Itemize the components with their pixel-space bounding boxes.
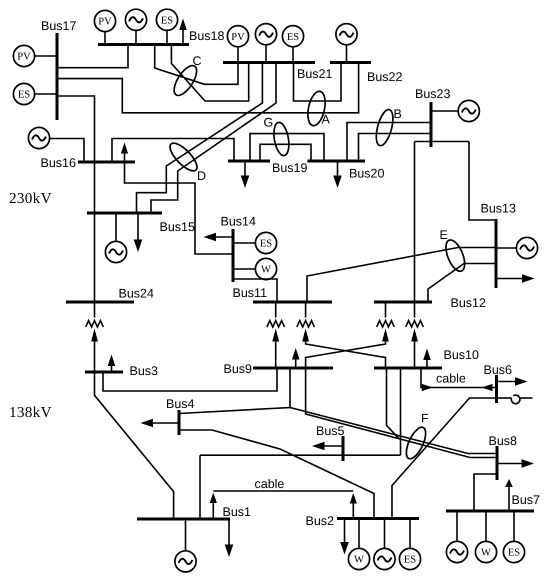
svg-text:Bus23: Bus23 (415, 87, 450, 101)
generator stub Bus23 (431, 110, 458, 112)
bus bar Bus1 (137, 518, 230, 521)
generator stub Bus1 (185, 519, 187, 551)
ES unit Bus14 (255, 232, 276, 253)
generator stub Bus7 (456, 511, 458, 542)
wire line 20-23 circuit 1 via B (347, 123, 431, 162)
wire line 5-10 (400, 368, 402, 455)
PV unit stub Bus17 upper (35, 55, 57, 57)
arrowhead up Bus9 (292, 348, 300, 360)
W unit stub Bus7 (485, 511, 487, 542)
wire line 16-19 (112, 139, 234, 163)
svg-text:PV: PV (231, 32, 245, 43)
wire cable 6-10 (421, 368, 497, 388)
svg-text:230kV: 230kV (9, 190, 52, 207)
transformer 11-10 stub (305, 302, 307, 318)
arrow right Bus6 shaft (497, 381, 516, 383)
arrowhead cable 1-2 at Bus2 (350, 493, 357, 504)
PV unit Bus18 (94, 10, 115, 31)
svg-text:ES: ES (508, 548, 520, 559)
bus bar Bus3 (85, 371, 123, 374)
arrow up Bus7 shaft (508, 487, 510, 511)
arrow left Bus5 shaft (325, 445, 344, 447)
bus bar Bus6 (495, 375, 498, 403)
svg-text:Bus16: Bus16 (41, 156, 76, 170)
generator Bus2 (374, 548, 395, 569)
svg-text:G: G (264, 116, 274, 130)
bus bar Bus24 (66, 301, 134, 304)
wire line 21-22 via A (294, 63, 342, 102)
generator Bus23 (458, 100, 479, 121)
arrow down Bus2 shaft (344, 519, 346, 543)
bus bar Bus16 (78, 161, 135, 164)
bus bar Bus15 (87, 212, 162, 215)
transformer 12-9 stub (385, 302, 387, 318)
arrow left Bus14 shaft (216, 236, 233, 238)
generator Bus18 (125, 9, 146, 30)
PV unit stub Bus18 (104, 32, 106, 45)
bus bar Bus2 (337, 517, 419, 520)
arrowhead down Bus1 (225, 545, 234, 558)
wire line 15-21 circuit 1 via D (137, 63, 263, 214)
wire line 1-3 (95, 372, 174, 519)
svg-text:Bus20: Bus20 (349, 167, 384, 181)
svg-text:PV: PV (17, 52, 31, 63)
arrowhead up Bus7 (505, 479, 513, 487)
arrow down Bus20 shaft (337, 161, 339, 176)
transformer C ellipse (170, 62, 201, 99)
svg-text:Bus18: Bus18 (189, 29, 224, 43)
arrow up Bus18 (182, 30, 184, 45)
arrowhead up Bus18 (179, 19, 187, 31)
PV unit Bus17 (13, 45, 34, 66)
bus bar Bus23 (430, 102, 433, 147)
transformer 12-9 zigzag (377, 321, 395, 327)
generator Bus1 (175, 551, 196, 572)
transformer 11-10 crossing shaft (306, 342, 386, 369)
arrowhead right Bus6 (515, 377, 528, 386)
svg-text:Bus11: Bus11 (233, 286, 268, 300)
svg-text:Bus19: Bus19 (272, 161, 307, 175)
arrowhead down Bus20 (333, 176, 342, 189)
bus bar Bus10 (374, 367, 442, 370)
generator stub Bus15 (115, 213, 117, 241)
transformer 24-3 zigzag (86, 321, 104, 327)
transformer 12-9 arrow (382, 329, 389, 342)
svg-text:ES: ES (287, 32, 299, 43)
svg-text:PV: PV (98, 17, 112, 28)
arrow left Bus4 shaft (153, 422, 179, 424)
transformer B ellipse (373, 108, 396, 148)
wire line 15-21 circuit 2 via D (151, 63, 276, 214)
W unit Bus7 (475, 541, 496, 562)
generator stub Bus22 (346, 45, 348, 63)
PV unit stub Bus21 (237, 47, 239, 63)
generator Bus7 (446, 541, 467, 562)
svg-text:Bus9: Bus9 (224, 362, 253, 376)
svg-text:ES: ES (18, 90, 30, 101)
wire line 11-13 via E (307, 248, 496, 303)
svg-text:W: W (261, 265, 271, 276)
ES unit Bus18 (156, 9, 177, 30)
transformer 11-10 arrow (302, 329, 309, 342)
wire line 13-23 (469, 142, 496, 221)
wire line 8-10 via F (306, 368, 497, 458)
arrowhead left Bus5 (312, 442, 325, 451)
svg-text:cable: cable (255, 477, 285, 491)
generator stub Bus2 (384, 519, 386, 549)
arrowhead cable 1-2 at Bus1 (210, 493, 217, 504)
wire cable 1-2 Bus2 arrow shaft (352, 504, 354, 519)
transformer 12-10 arrow (411, 329, 418, 342)
wire line 12-13 via E (428, 264, 496, 303)
arrow up Bus9 shaft (295, 360, 297, 369)
wire line 1-5 vertical (199, 455, 201, 519)
arrow right Bus8 shaft (497, 463, 522, 465)
arrow up Bus3 shaft (111, 366, 113, 372)
bus bar Bus4 (178, 410, 181, 435)
generator stub Bus18 (135, 31, 137, 45)
wire line 16-17 / 15-16 / 15-24 (57, 96, 95, 302)
wire line 8-9 via F (290, 408, 497, 454)
transformer 24-3 arrow (91, 329, 98, 342)
PV unit Bus21 (227, 26, 248, 47)
W unit Bus14 (255, 258, 276, 279)
wire line 17-18 (57, 45, 128, 68)
W unit Bus2 (348, 548, 369, 569)
ES unit Bus7 (503, 541, 524, 562)
transformer 24-3 shaft to Bus3 (94, 342, 96, 373)
svg-text:A: A (322, 113, 331, 127)
transformer 11-10 zigzag (297, 321, 315, 327)
wire line 19-20 circuit 1 via G (250, 134, 324, 161)
svg-text:138kV: 138kV (9, 404, 52, 421)
arrow up Bus10 shaft (426, 360, 428, 368)
arrowhead down Bus2 (340, 542, 349, 555)
wire line 2-6 (392, 398, 497, 519)
generator Bus16 (28, 127, 49, 148)
bus bar Bus21 (223, 61, 315, 64)
svg-text:ES: ES (404, 555, 416, 566)
ES unit stub Bus2 (409, 519, 411, 549)
wire cable 1-2 (213, 490, 353, 492)
generator Bus22 (336, 24, 357, 45)
arrowhead up Bus10 (423, 349, 431, 361)
svg-text:ES: ES (260, 239, 272, 250)
bus bar Bus11 (253, 301, 332, 304)
transformer 12-10 shaft (414, 342, 416, 369)
wire line 11-14 (233, 279, 277, 302)
bus bar Bus20 (308, 160, 366, 163)
bus bar Bus13 (495, 219, 498, 288)
ES unit stub Bus18 (166, 31, 168, 45)
wire Bus10 stub to F bundle (387, 368, 400, 439)
generator Bus13 (516, 237, 537, 258)
transformer 24-3 stub (94, 302, 96, 318)
svg-text:F: F (421, 412, 429, 426)
generator stub Bus13 (496, 247, 516, 249)
wire line 19-20 circuit 2 via G (260, 144, 311, 161)
bus bar Bus12 (374, 301, 432, 304)
svg-text:Bus15: Bus15 (160, 220, 195, 234)
bus bar Bus19 (228, 160, 270, 163)
ES unit Bus17 (13, 83, 34, 104)
svg-text:E: E (440, 228, 448, 242)
wire cable 1-2 Bus1 arrow shaft (212, 503, 214, 519)
ES unit stub Bus21 (292, 47, 294, 63)
wire line 7-8 (474, 474, 497, 511)
svg-text:ES: ES (161, 15, 173, 26)
transformer D ellipse (166, 139, 201, 175)
arrowhead down Bus15 (134, 240, 143, 253)
wire line 3-9 (103, 368, 277, 391)
svg-text:Bus3: Bus3 (130, 364, 159, 378)
generator Bus15 (105, 241, 126, 262)
svg-text:Bus22: Bus22 (367, 70, 402, 84)
arrowhead cable 6-10 left (422, 384, 433, 391)
svg-text:Bus14: Bus14 (221, 215, 256, 229)
transformer 12-9 crossing shaft (306, 342, 386, 369)
generator stub Bus16 (50, 139, 84, 163)
svg-text:Bus5: Bus5 (316, 424, 345, 438)
generator Bus21 (255, 24, 276, 45)
svg-text:D: D (197, 169, 206, 183)
arrowhead down Bus19 (241, 176, 250, 189)
bus bar Bus7 (446, 510, 534, 513)
bus bar Bus8 (496, 446, 499, 480)
generator stub Bus21 (265, 45, 267, 63)
wire line 1-5 horizontal (200, 454, 401, 456)
transformer A ellipse (305, 90, 328, 128)
arrowhead right Bus13 (522, 274, 535, 283)
ES unit stub Bus17 lower (35, 93, 57, 95)
svg-text:W: W (354, 555, 364, 566)
transformer 11-9 stub (275, 302, 277, 318)
transformer 11-9 shaft (275, 342, 277, 369)
svg-text:C: C (193, 54, 202, 68)
svg-text:Bus2: Bus2 (306, 514, 335, 528)
bus bar Bus14 (232, 229, 235, 282)
W unit stub Bus14 (233, 268, 255, 270)
svg-text:Bus12: Bus12 (451, 296, 486, 310)
wire line 14-16 with arrow (125, 154, 234, 255)
arrow down Bus19 shaft (244, 161, 246, 176)
svg-text:Bus1: Bus1 (223, 505, 252, 519)
arrowhead cable 6-10 right (482, 384, 493, 391)
transformer 11-9 zigzag (267, 321, 285, 327)
bus bar Bus5 (342, 436, 345, 461)
wire line 20-23 circuit 2 via B (359, 134, 432, 162)
arrowhead right Bus8 (522, 459, 535, 468)
wire line 4-9 (179, 368, 290, 414)
ES unit stub Bus7 (513, 511, 515, 542)
svg-text:cable: cable (436, 372, 466, 386)
svg-text:B: B (394, 107, 402, 121)
svg-text:Bus17: Bus17 (41, 19, 76, 33)
bus bar Bus17 (56, 33, 59, 120)
svg-text:Bus13: Bus13 (481, 202, 516, 216)
arrow down Bus15 shaft (137, 213, 139, 240)
bus bar Bus9 (253, 367, 333, 370)
reactor curl Bus6 (497, 395, 533, 404)
ES unit Bus2 (399, 548, 420, 569)
arrow down Bus1 shaft (228, 519, 230, 545)
bus bar Bus18 (98, 43, 189, 46)
transformer E ellipse (442, 237, 468, 273)
transformer F ellipse (402, 425, 429, 462)
arrowhead line 14-16 into Bus16 (121, 143, 128, 154)
svg-text:Bus7: Bus7 (512, 493, 541, 507)
arrow right Bus13 shaft (496, 278, 522, 280)
arrowhead left Bus4 (141, 419, 154, 428)
W unit stub Bus2 (358, 519, 360, 549)
transformer 12-10 stub (414, 302, 416, 318)
svg-text:W: W (481, 548, 491, 559)
ES unit Bus21 (282, 26, 303, 47)
wire line 18-21 circuit 1 via C (155, 45, 238, 85)
wire line 17-22 (57, 63, 359, 113)
wire Bus23 crossbar (415, 141, 470, 143)
svg-text:Bus4: Bus4 (166, 397, 195, 411)
wire line 2-4 (179, 430, 374, 519)
arrowhead left Bus14 (204, 233, 217, 242)
svg-text:Bus24: Bus24 (119, 287, 154, 301)
transformer 12-10 zigzag (406, 321, 424, 327)
wire line 18-21 circuit 2 via C (171, 45, 248, 102)
svg-text:Bus21: Bus21 (297, 67, 332, 81)
transformer 11-9 arrow (272, 329, 279, 342)
svg-text:Bus10: Bus10 (444, 348, 479, 362)
ES unit stub Bus14 (233, 242, 255, 244)
bus bar Bus22 (330, 61, 371, 64)
svg-text:Bus6: Bus6 (484, 363, 513, 377)
wire line 12-23 (414, 142, 416, 303)
arrowhead up Bus3 (108, 355, 116, 367)
svg-text:Bus8: Bus8 (489, 434, 518, 448)
transformer G ellipse (272, 121, 292, 157)
